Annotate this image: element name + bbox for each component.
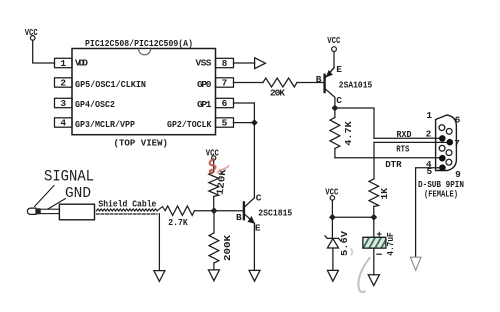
svg-text:200K: 200K <box>222 235 233 261</box>
pin 8 box <box>216 58 234 67</box>
svg-text:20K: 20K <box>270 88 285 99</box>
VCC terminal circle right-bottom <box>330 196 334 200</box>
svg-text:4: 4 <box>60 118 66 129</box>
plus sign <box>377 232 381 236</box>
watermark swirl <box>358 258 369 292</box>
wire 20K to Q2 base <box>297 82 323 84</box>
shield dashed line <box>97 213 158 215</box>
zener diode D1 5.6V <box>331 217 333 238</box>
svg-text:4.7K: 4.7K <box>343 121 354 146</box>
wire pin8 VSS <box>234 62 255 64</box>
svg-text:VCC: VCC <box>327 35 340 46</box>
svg-text:5.6V: 5.6V <box>339 231 350 256</box>
svg-text:DTR: DTR <box>385 159 402 170</box>
wire shield to ground <box>158 214 160 271</box>
svg-text:C: C <box>256 193 262 204</box>
capacitor C1 4.7uF <box>373 217 375 237</box>
wire VCC to 120K <box>213 160 215 172</box>
svg-text:2: 2 <box>426 129 432 140</box>
wire GP2 <box>234 122 255 124</box>
ground arrow Q1 emitter <box>249 270 260 281</box>
jack plug tip <box>27 208 36 214</box>
svg-text:7: 7 <box>454 138 460 149</box>
red pen scribble <box>210 159 216 173</box>
ground arrow 200K <box>208 270 219 281</box>
D-SUB pin 6 <box>446 129 452 135</box>
node rail left <box>329 214 336 221</box>
VCC terminal circle top-left <box>30 36 35 41</box>
D-SUB pin 9 <box>446 159 452 165</box>
connector J1 D-SUB body <box>436 115 457 171</box>
svg-text:5: 5 <box>222 118 228 129</box>
wire D-SUB pin5 to ground <box>416 168 441 257</box>
wire junction down to Q1 collector <box>253 103 255 198</box>
ground arrow below D-SUB <box>410 257 421 270</box>
svg-text:1: 1 <box>426 110 432 121</box>
pin 3 box <box>55 98 73 107</box>
node GP1/GP2 junction <box>251 119 258 126</box>
IC U1 PIC12C508 body <box>72 49 216 135</box>
wire VCC to Q2 emitter <box>333 52 335 68</box>
resistor 20K <box>263 78 297 87</box>
cable end spike <box>158 207 166 211</box>
resistor 120K <box>209 172 219 197</box>
svg-text:6: 6 <box>222 98 228 109</box>
VCC terminal circle mid <box>212 156 216 160</box>
svg-text:7: 7 <box>222 78 228 89</box>
IC notch <box>139 49 151 55</box>
jack body <box>59 204 94 220</box>
svg-text:2.7K: 2.7K <box>168 217 188 228</box>
pin 1 box <box>55 58 73 67</box>
svg-text:GP3/MCLR/VPP: GP3/MCLR/VPP <box>75 119 135 130</box>
resistor 200K <box>213 211 215 233</box>
svg-text:VDD: VDD <box>75 58 88 69</box>
svg-text:E: E <box>336 64 342 75</box>
D-SUB pin 7 <box>447 139 454 146</box>
svg-text:GP0: GP0 <box>197 79 212 90</box>
svg-text:VSS: VSS <box>196 58 212 69</box>
pin 6 box <box>216 98 234 107</box>
wire RXD <box>374 137 440 139</box>
svg-text:RTS: RTS <box>396 143 409 154</box>
leader line GND <box>48 199 66 210</box>
D-SUB pin 3 <box>439 145 445 151</box>
wire RTS corner down to 1K <box>373 142 375 179</box>
transistor Q2 2SA1015 <box>325 68 335 105</box>
wire Q1 emitter to ground <box>253 223 255 270</box>
svg-text:(TOP VIEW): (TOP VIEW) <box>114 138 169 149</box>
wire GP0 to 20K <box>234 82 264 84</box>
resistor 1K <box>369 179 379 207</box>
D-SUB pin 8 <box>446 150 452 156</box>
wire 2.7K to Q1 base <box>195 210 244 212</box>
svg-text:2: 2 <box>60 78 66 89</box>
svg-text:PIC12C508/PIC12C509(A): PIC12C508/PIC12C509(A) <box>85 38 193 49</box>
transistor Q1 2SC1815 <box>244 198 255 224</box>
leader line SIGNAL <box>35 186 55 207</box>
svg-text:GND: GND <box>65 186 91 202</box>
svg-text:E: E <box>255 223 261 234</box>
D-SUB pin 4 <box>439 155 446 162</box>
wire VCC to pin1 <box>33 40 55 63</box>
wire VCC rail <box>332 216 373 218</box>
pin 5 box <box>216 118 234 127</box>
svg-text:SIGNAL: SIGNAL <box>44 168 94 186</box>
svg-text:B: B <box>236 212 242 223</box>
svg-text:1K: 1K <box>379 188 390 200</box>
svg-text:1: 1 <box>60 58 66 69</box>
svg-text:RXD: RXD <box>397 129 412 140</box>
svg-text:GP1: GP1 <box>197 99 212 110</box>
wire DTR (4.7K bottom to pin4) <box>335 157 440 159</box>
jack ring band <box>36 208 40 214</box>
svg-text:GP4/OSC2: GP4/OSC2 <box>75 99 115 110</box>
shield braid line <box>96 209 157 211</box>
svg-text:GP5/OSC1/CLKIN: GP5/OSC1/CLKIN <box>75 79 146 90</box>
wire RTS <box>374 141 447 143</box>
ground arrow shield <box>154 271 165 282</box>
pin 4 box <box>55 118 73 127</box>
wire VCC down to rail <box>331 200 333 217</box>
minus sign <box>377 253 381 255</box>
resistor 2.7K <box>165 206 194 215</box>
wire collector to RXD corner <box>335 108 374 138</box>
D-SUB pin 1 <box>439 125 445 131</box>
svg-text:2SC1815: 2SC1815 <box>258 208 292 219</box>
pin 7 box <box>216 78 234 87</box>
D-SUB pin 5 <box>439 164 446 171</box>
ground arrow zener <box>327 270 338 281</box>
VCC terminal circle top-right <box>332 47 337 52</box>
wire GP1 down <box>234 102 255 104</box>
svg-text:4.7uF: 4.7uF <box>385 232 396 256</box>
svg-text:2SA1015: 2SA1015 <box>339 80 373 91</box>
node divider junction <box>211 207 218 214</box>
ground arrow capacitor <box>368 275 379 286</box>
D-SUB pin 2 <box>439 135 446 142</box>
svg-text:B: B <box>316 74 322 85</box>
pin 2 box <box>55 78 73 87</box>
svg-text:GP2/TOCLK: GP2/TOCLK <box>167 119 212 130</box>
svg-text:3: 3 <box>60 98 66 109</box>
resistor 4.7K <box>334 108 336 118</box>
ground arrow right (VSS) <box>255 58 266 69</box>
node rail right <box>370 214 377 221</box>
svg-text:C: C <box>336 95 342 106</box>
node Q2 collector junction <box>332 105 339 112</box>
jack shaft <box>40 209 59 213</box>
svg-text:(FEMALE): (FEMALE) <box>424 188 458 199</box>
svg-text:Shield Cable: Shield Cable <box>98 198 156 209</box>
svg-text:8: 8 <box>222 58 228 69</box>
svg-text:6: 6 <box>455 114 461 125</box>
